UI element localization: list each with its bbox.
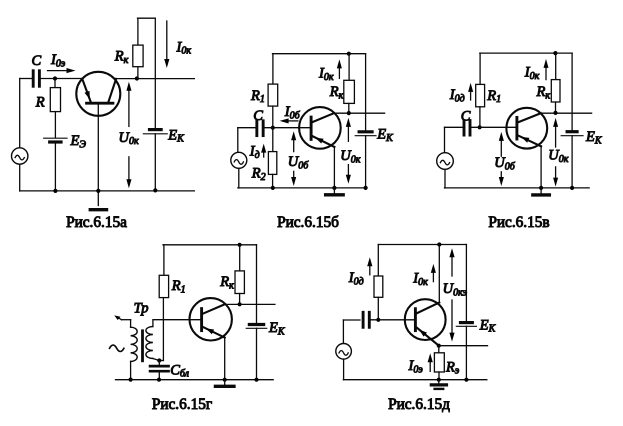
resistor R1 circuit г	[159, 275, 168, 297]
transformer Тр core	[141, 331, 144, 361]
wire: collector horizontal circuit г	[224, 303, 275, 305]
wire: top rail to R1 circuit в	[479, 53, 481, 84]
voltage arrow U0к down circuit б	[347, 165, 349, 175]
wire: right rail top circuit д	[465, 245, 467, 322]
transistor VT4 collector line	[203, 304, 225, 313]
transistor VT4 (circle)	[190, 298, 232, 340]
ground symbol circuit в	[540, 188, 542, 195]
voltage arrow U0б up circuit в	[500, 141, 502, 156]
capacitor C	[32, 71, 35, 87]
svg-text:C: C	[253, 108, 263, 124]
svg-text:Рис.6.15д: Рис.6.15д	[388, 396, 450, 413]
wire: right rail top circuit б	[365, 54, 367, 130]
wire: right rail top circuit в	[571, 53, 573, 130]
wire: input to capacitor C	[20, 78, 33, 80]
current arrow I0к up circuit в	[545, 68, 547, 80]
resistor R1 circuit в	[476, 84, 485, 106]
svg-text:Rк: Rк	[219, 274, 234, 291]
node: Cбл bottom rail	[157, 378, 161, 382]
transistor VT3 emitter line	[518, 135, 541, 146]
node: emitter input junction	[53, 76, 57, 80]
wire: right rail top circuit г	[256, 245, 258, 323]
wire: top rail circuit г	[163, 244, 257, 246]
wire: Rк to collector node	[137, 67, 139, 79]
wire: arrow stub to primary	[130, 320, 132, 328]
node: base junction circuit в	[478, 125, 482, 129]
svg-text:I0к: I0к	[176, 39, 192, 56]
node: Eк bottom	[153, 188, 157, 192]
transformer Тр secondary winding	[146, 327, 153, 359]
node: right rail bottom circuit в	[570, 186, 574, 190]
wire: AC source to bottom rail	[19, 164, 21, 191]
transistor VT5 base bar	[414, 309, 417, 331]
transistor VT5 (circle)	[405, 299, 446, 340]
svg-text:U0б: U0б	[288, 154, 309, 171]
transistor VT3 collector line	[518, 113, 541, 122]
resistor R1 circuit б	[268, 84, 278, 106]
node: R2 bottom	[271, 186, 275, 190]
ground symbol circuit г	[224, 380, 226, 387]
AC signal source G1	[12, 148, 28, 164]
wire: Eэ to bottom rail	[54, 142, 56, 191]
current arrow I0к up circuit д	[432, 273, 434, 282]
circuit Рис.6.15а (common-base amplifier)	[12, 18, 195, 231]
wire: AC to capacitor circuit д	[343, 319, 360, 321]
wire: emitter node to Rэ	[438, 346, 440, 353]
transistor VT5 collector line	[416, 303, 439, 314]
wire: bias resistor to base node	[377, 297, 379, 320]
svg-text:U0к: U0к	[119, 130, 139, 147]
node: base junction	[271, 126, 275, 130]
wire: Rк to collector node	[348, 103, 350, 113]
wire: R to battery Eэ	[54, 112, 56, 138]
transistor VT1 (circle)	[76, 72, 120, 116]
svg-text:I0к: I0к	[412, 271, 428, 288]
transistor VT2 collector line	[312, 113, 334, 122]
svg-text:R: R	[35, 94, 45, 110]
wire: collector to right	[114, 78, 194, 80]
node: collector junction	[135, 76, 139, 80]
wire: emitter horizontal circuit д	[439, 345, 488, 347]
wire: top to Rк	[137, 18, 139, 45]
transformer Тр primary winding	[131, 327, 138, 361]
svg-text:Rк: Rк	[536, 84, 551, 101]
wire: R2 to bottom rail	[272, 174, 274, 188]
node: top rail Rк junction	[347, 52, 351, 56]
voltage arrow U0к up	[128, 91, 130, 127]
svg-text:Rк: Rк	[329, 84, 344, 101]
wire: node to R2	[272, 128, 274, 152]
wire: input left vertical circuit в	[444, 127, 446, 152]
svg-text:I0д: I0д	[348, 270, 364, 287]
transistor VT4 base bar	[200, 309, 203, 331]
svg-text:U0к: U0к	[548, 148, 568, 165]
resistor Rк	[133, 45, 143, 67]
svg-text:I0э: I0э	[50, 52, 66, 69]
svg-text:Rк: Rк	[114, 48, 129, 65]
transistor VT1 base bar	[87, 102, 113, 105]
wire: jog to node	[159, 360, 163, 362]
current arrow I0д up circuit д	[369, 266, 371, 275]
current arrow I0э up	[429, 362, 431, 371]
capacitor Cбл	[158, 361, 160, 365]
wire: AC to capacitor circuit в	[445, 126, 463, 128]
current arrow I0д up circuit в	[470, 92, 472, 100]
wire: right rail bottom circuit г	[256, 328, 258, 379]
transistor VT2 emitter arrow (PNP)	[315, 138, 323, 144]
voltage arrow U0б down circuit в	[500, 172, 502, 177]
wire: emitter to bottom rail circuit в	[540, 146, 542, 188]
transistor VT1 collector line	[108, 79, 116, 103]
svg-text:C: C	[32, 53, 42, 69]
voltage arrow U0кэ down	[451, 300, 453, 333]
transistor VT4 emitter line	[203, 327, 225, 338]
svg-text:Рис.6.15в: Рис.6.15в	[488, 214, 549, 231]
wire: right branch vertical	[154, 18, 156, 129]
transistor VT3 (circle)	[506, 108, 547, 149]
battery Eк circuit д	[461, 321, 473, 324]
svg-text:R1: R1	[250, 88, 265, 105]
node: emitter bottom	[332, 186, 336, 190]
voltage arrow U0к up circuit б	[347, 127, 349, 141]
wire: emitter to bottom rail circuit г	[224, 337, 226, 380]
node: right rail bottom circuit г	[254, 378, 258, 382]
current arrow I0б left	[289, 120, 298, 122]
wire: base wire circuit д	[369, 319, 415, 321]
wire: top rail circuit в	[480, 52, 572, 54]
ground symbol circuit д	[438, 380, 440, 384]
battery Eк circuit б	[359, 130, 372, 133]
label ~ AC input	[110, 345, 124, 351]
node: collector junction circuit г	[238, 302, 242, 306]
svg-text:R1: R1	[171, 278, 186, 295]
transistor VT3 base bar	[515, 117, 518, 139]
resistor R1 circuit д	[374, 276, 383, 297]
circuit Рис.6.15в (common-emitter, fixed bias)	[437, 51, 603, 231]
wire: AC to capacitor	[238, 127, 256, 129]
wire: top rail to Rк circuit г	[239, 245, 241, 271]
wire: AC to bottom rail circuit в	[444, 169, 446, 188]
circuit Рис.6.15г (transformer input)	[110, 243, 286, 413]
current arrow I0к down	[166, 21, 168, 59]
wire: primary bottom to rail	[130, 361, 132, 379]
node: Rэ bottom	[437, 378, 441, 382]
circuit Рис.6.15д (emitter resistor)	[336, 242, 497, 413]
svg-text:U0к: U0к	[340, 148, 360, 165]
wire: input left vertical circuit б	[237, 128, 239, 153]
svg-text:I0э: I0э	[408, 358, 424, 375]
svg-text:R1: R1	[486, 88, 501, 105]
voltage arrow U0кэ up	[451, 257, 453, 276]
wire: top rail to bias resistor	[377, 245, 379, 277]
node: top rail collector junction	[437, 242, 441, 246]
wire: top rail to R1 circuit г	[163, 245, 165, 275]
svg-text:Сбл: Сбл	[170, 362, 189, 379]
capacitor C circuit д	[362, 312, 365, 327]
resistor Rк circuit б	[344, 80, 355, 103]
voltage arrow U0б up circuit б	[293, 140, 295, 151]
wire: R1 to base node circuit в	[479, 107, 481, 128]
transistor VT2 (circle)	[299, 107, 341, 149]
wire: base wire	[264, 127, 311, 129]
wire: top rail to Rк circuit в	[555, 53, 557, 80]
transistor VT1 emitter arrow (PNP)	[85, 91, 90, 99]
antenna arrow input	[122, 319, 131, 321]
wire: bottom rail circuit г	[116, 379, 274, 381]
node: right rail bottom circuit д	[464, 378, 468, 382]
wire: top rail to Rк	[348, 54, 350, 81]
wire: bottom ground rail	[20, 190, 195, 192]
svg-text:EК: EК	[585, 129, 603, 146]
node: base at bottom rail	[96, 189, 100, 193]
resistor R2	[268, 152, 276, 175]
svg-text:EК: EК	[479, 317, 497, 334]
voltage arrow U0б down circuit б	[293, 171, 295, 177]
svg-text:U0б: U0б	[494, 155, 515, 172]
AC signal source circuit б	[231, 152, 247, 168]
node: collector junction circuit в	[553, 111, 557, 115]
node: top rail junction circuit в	[553, 51, 557, 55]
node: top rail junction circuit г	[238, 243, 242, 247]
svg-text:Тр: Тр	[134, 301, 149, 317]
svg-text:I0д: I0д	[449, 87, 465, 104]
transistor VT2 base bar	[310, 117, 313, 139]
wire: top rail to R1	[272, 54, 274, 84]
voltage arrow U0к up circuit в	[555, 127, 557, 147]
svg-text:EК: EК	[268, 320, 286, 337]
wire: Rэ to bottom rail	[438, 372, 440, 380]
wire: collector horizontal circuit в	[541, 112, 592, 114]
wire: AC to bottom rail circuit б	[238, 168, 240, 188]
battery Eк circuit г	[249, 323, 263, 326]
wire: emitter to bottom rail	[333, 147, 335, 188]
svg-text:U0кэ: U0кэ	[443, 281, 468, 298]
node: base junction circuit д	[376, 318, 380, 322]
node: secondary bottom Cбл	[157, 358, 161, 362]
wire: top rail circuit д	[378, 244, 466, 246]
wire: R1 to base node	[272, 106, 274, 128]
node: emitter bottom circuit г	[223, 378, 227, 382]
svg-text:Rэ: Rэ	[445, 359, 460, 376]
current arrow Iд up	[263, 153, 265, 157]
svg-text:EК: EК	[167, 127, 185, 144]
wire: Eк to bottom rail	[154, 134, 156, 191]
wire: base wire circuit в	[471, 126, 517, 128]
wire: R1 down to Cбл node	[162, 298, 164, 361]
transistor VT3 emitter arrow (PNP)	[521, 137, 529, 143]
wire: bottom rail circuit в	[445, 187, 590, 189]
circuit Рис.6.15б (common-emitter, divider bias)	[231, 52, 394, 231]
battery Eэ	[44, 137, 67, 139]
capacitor C circuit б	[255, 121, 258, 136]
capacitor C circuit в	[463, 121, 466, 136]
resistor R	[50, 88, 60, 112]
node: Eэ bottom	[53, 189, 57, 193]
wire: top rail	[273, 53, 366, 55]
voltage arrow U0к down circuit в	[555, 167, 557, 178]
wire: input left vertical circuit д	[342, 320, 344, 344]
svg-text:EЭ: EЭ	[70, 133, 87, 150]
resistor Rэ	[434, 353, 444, 372]
wire: right rail bottom circuit в	[571, 136, 573, 188]
ground symbol circuit б	[333, 188, 335, 195]
wire: bottom rail circuit б	[238, 187, 366, 189]
transistor VT5 emitter line	[416, 327, 438, 345]
wire: secondary bottom to node	[153, 359, 159, 361]
node: collector junction circuit б	[347, 111, 351, 115]
wire: Rк top connection	[138, 17, 156, 19]
svg-text:EК: EК	[376, 126, 394, 143]
svg-text:R2: R2	[251, 166, 266, 183]
wire: capacitor to emitter	[40, 78, 82, 80]
wire: base lead down to ground	[97, 103, 99, 205]
resistor Rк circuit г	[235, 271, 244, 294]
node: primary bottom	[129, 378, 133, 382]
svg-text:I0б: I0б	[284, 104, 301, 121]
svg-text:Рис.6.15г: Рис.6.15г	[152, 396, 212, 413]
AC signal source circuit д	[336, 344, 352, 360]
wire: input left vertical	[19, 79, 21, 148]
wire: secondary top to base wire	[153, 320, 202, 327]
voltage arrow U0к down	[128, 157, 130, 180]
resistor Rк circuit в	[551, 80, 560, 102]
wire: right rail bottom circuit б	[365, 136, 367, 188]
current arrow I0э	[48, 70, 67, 72]
svg-text:Рис.6.15а: Рис.6.15а	[66, 214, 127, 231]
svg-text:I0к: I0к	[524, 65, 540, 82]
node: right rail bottom	[364, 186, 368, 190]
svg-text:Iд: Iд	[249, 144, 260, 161]
wire: collector up to top rail	[438, 245, 440, 303]
transistor VT4 emitter arrow (PNP)	[206, 328, 214, 334]
node: emitter junction circuit д	[437, 344, 441, 348]
svg-text:I0к: I0к	[318, 66, 334, 83]
node: emitter bottom circuit в	[539, 186, 543, 190]
wire: Rк to collector node circuit в	[555, 102, 557, 113]
wire: bottom rail circuit д	[343, 379, 486, 381]
transistor VT2 emitter line	[312, 136, 334, 147]
wire: AC to bottom rail circuit д	[343, 359, 345, 380]
wire: Rк to collector node circuit г	[239, 294, 241, 305]
svg-text:Рис.6.15б: Рис.6.15б	[277, 214, 339, 231]
wire: collector horizontal	[334, 112, 385, 114]
svg-text:C: C	[461, 108, 471, 124]
battery Eк circuit в	[567, 130, 577, 133]
battery Eк circuit a	[150, 128, 162, 131]
wire: right rail bottom circuit д	[465, 326, 467, 379]
transistor VT5 emitter arrow (PNP)	[419, 330, 427, 337]
ground symbol circuit a	[90, 208, 106, 211]
transistor VT1 emitter line	[82, 79, 91, 103]
wire: node to resistor R	[54, 79, 56, 88]
AC signal source circuit в	[437, 153, 454, 170]
current arrow I0к up circuit б	[338, 68, 340, 78]
